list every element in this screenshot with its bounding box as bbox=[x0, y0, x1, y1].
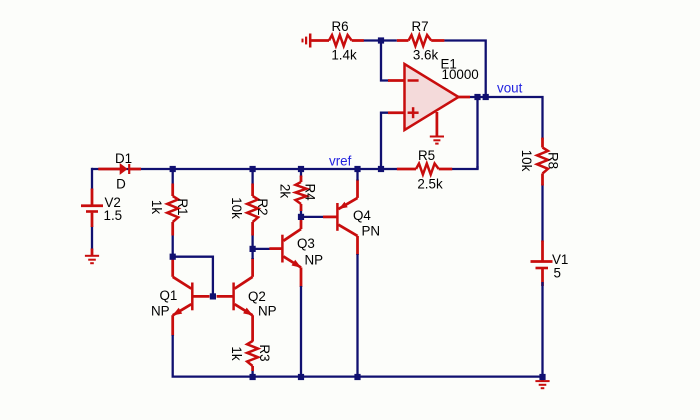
transistor Q2 bbox=[217, 258, 253, 341]
svg-text:PN: PN bbox=[362, 224, 381, 239]
label Q2 model NP bbox=[258, 304, 277, 319]
label R2 name bbox=[255, 198, 270, 215]
svg-text:R7: R7 bbox=[411, 19, 428, 34]
junction rail/ground bbox=[539, 374, 545, 380]
label R8 name bbox=[546, 152, 561, 169]
label Q1 name bbox=[160, 288, 178, 303]
svg-text:R3: R3 bbox=[257, 344, 272, 361]
resistor R2 bbox=[247, 184, 258, 236]
label R3 name bbox=[257, 344, 272, 361]
label Q3 name bbox=[297, 236, 315, 251]
wire: V1 to bottom rail bbox=[541, 282, 543, 377]
svg-text:1k: 1k bbox=[229, 346, 244, 360]
label Q4 model PN bbox=[362, 224, 381, 239]
label V1 name bbox=[552, 252, 568, 267]
wire: bottom rail bbox=[173, 335, 543, 377]
node vout label bbox=[497, 80, 523, 95]
svg-text:10000: 10000 bbox=[442, 67, 479, 82]
svg-text:R8: R8 bbox=[546, 152, 561, 169]
wire: Q3 base from junction bbox=[253, 248, 270, 250]
ground (left rail of R6) bbox=[303, 34, 311, 48]
svg-text:1.4k: 1.4k bbox=[331, 48, 357, 63]
label Q4 name bbox=[353, 208, 371, 223]
svg-text:Q2: Q2 bbox=[248, 289, 266, 304]
label R6 value bbox=[331, 48, 357, 63]
svg-text:3.6k: 3.6k bbox=[413, 48, 439, 63]
junction at output/R5 bbox=[474, 94, 480, 100]
label R8 value bbox=[519, 150, 534, 172]
resistor R5 bbox=[397, 164, 452, 175]
resistor R8 bbox=[537, 138, 548, 186]
wire: junction down to - input bbox=[381, 41, 389, 81]
junction at output/R7 feedback bbox=[483, 94, 489, 100]
battery V2 bbox=[81, 189, 103, 228]
label E1 name bbox=[441, 57, 457, 72]
label R7 name bbox=[411, 19, 428, 34]
label V1 value bbox=[554, 266, 561, 281]
wire: R1 column top bbox=[172, 169, 174, 185]
svg-text:Q1: Q1 bbox=[160, 288, 178, 303]
svg-text:2k: 2k bbox=[278, 184, 293, 198]
resistor R4 bbox=[296, 176, 307, 212]
svg-text:vref: vref bbox=[329, 153, 352, 168]
svg-text:5: 5 bbox=[554, 266, 561, 281]
svg-text:NP: NP bbox=[151, 304, 170, 319]
svg-text:1k: 1k bbox=[149, 200, 164, 214]
junction rail/R1 bbox=[170, 166, 176, 172]
ground (op-amp reference) bbox=[430, 112, 444, 144]
wire: R3 bottom bbox=[251, 370, 253, 377]
op-amp E1 bbox=[388, 64, 470, 130]
transistor Q1 bbox=[172, 257, 209, 336]
label R2 value bbox=[229, 197, 244, 219]
label R1 name bbox=[175, 198, 190, 215]
wire: R1 column bottom bbox=[172, 234, 174, 257]
resistor R3 bbox=[247, 341, 258, 371]
svg-text:NP: NP bbox=[258, 304, 277, 319]
svg-text:D: D bbox=[116, 177, 126, 192]
label Q3 model NP bbox=[305, 253, 324, 268]
svg-text:10k: 10k bbox=[519, 150, 534, 172]
svg-text:1.5: 1.5 bbox=[104, 208, 123, 223]
svg-text:R1: R1 bbox=[175, 198, 190, 215]
wire: junction to R7 bbox=[381, 39, 397, 41]
label R5 value bbox=[417, 177, 443, 192]
svg-text:10k: 10k bbox=[229, 197, 244, 219]
label Q2 name bbox=[248, 289, 266, 304]
wire: Q4 collector to rail bbox=[356, 254, 358, 377]
node vref label bbox=[329, 153, 352, 168]
ground (bottom rail) bbox=[535, 377, 549, 388]
wire: left column top bbox=[91, 168, 93, 190]
svg-text:R5: R5 bbox=[418, 148, 435, 163]
junction rail/Q4 emitter bbox=[354, 166, 360, 172]
wire: op-amp output to R8 corner bbox=[470, 97, 543, 140]
wire: R2 column top bbox=[251, 169, 253, 185]
label R4 value bbox=[278, 184, 293, 198]
junction rail/R2 bbox=[250, 166, 256, 172]
resistor R1 bbox=[167, 184, 178, 236]
transistor Q4 bbox=[323, 180, 358, 256]
label R7 value bbox=[413, 48, 439, 63]
transistor Q3 bbox=[269, 217, 301, 287]
junction rail/Q4 collector bbox=[354, 374, 360, 380]
resistor R7 bbox=[397, 35, 445, 46]
diode D1 bbox=[98, 163, 141, 175]
wire: R2 column bottom bbox=[251, 234, 253, 249]
resistor R6 bbox=[311, 35, 364, 46]
ground (below V2) bbox=[85, 249, 99, 264]
wire: Q3 emitter to rail bbox=[300, 286, 302, 377]
wire: Q4 emitter to vref rail bbox=[356, 169, 358, 181]
svg-text:R6: R6 bbox=[331, 19, 348, 34]
junction rail/Q3 emitter bbox=[298, 374, 304, 380]
label R6 name bbox=[331, 19, 348, 34]
label D1 name bbox=[115, 151, 132, 166]
wire: left column below battery bbox=[91, 226, 93, 250]
junction rail/+input/R5 bbox=[378, 166, 384, 172]
label V2 value bbox=[104, 208, 123, 223]
junction R6/R7/- input bbox=[378, 37, 384, 43]
svg-text:R2: R2 bbox=[255, 198, 270, 215]
svg-text:vout: vout bbox=[497, 80, 523, 95]
label R3 value bbox=[229, 346, 244, 360]
svg-text:D1: D1 bbox=[115, 151, 132, 166]
junction R4 bottom bbox=[298, 214, 304, 220]
svg-text:2.5k: 2.5k bbox=[417, 177, 443, 192]
label V2 name bbox=[105, 195, 121, 210]
wire: R4 column top bbox=[300, 169, 302, 177]
svg-text:Q3: Q3 bbox=[297, 236, 315, 251]
wire: Q4 base from junction bbox=[301, 216, 323, 218]
junction R1 bottom bbox=[170, 254, 176, 260]
wire: vref junction to R5 bbox=[381, 168, 397, 170]
junction rail/R3 bbox=[250, 374, 256, 380]
wire: R5 to riser corner bbox=[452, 166, 478, 169]
junction R2 bottom bbox=[250, 246, 256, 252]
wire: + input down to vref rail bbox=[381, 113, 389, 169]
wire: output node down to R5 bbox=[476, 97, 478, 169]
wire: vref rail bbox=[92, 168, 381, 170]
wire: R8 column bbox=[541, 184, 543, 242]
junction rail/R4 bbox=[298, 166, 304, 172]
wire: Q2 collector to junction bbox=[251, 249, 253, 259]
wire: R7 to feedback corner bbox=[444, 41, 486, 98]
svg-text:R4: R4 bbox=[303, 183, 318, 201]
label E1 gain value bbox=[442, 67, 479, 82]
label R5 name bbox=[418, 148, 435, 163]
label D1 model bbox=[116, 177, 126, 192]
svg-text:NP: NP bbox=[305, 253, 324, 268]
label Q1 model NP bbox=[151, 304, 170, 319]
wire: R1 bottom to Q1/Q2 bases bbox=[173, 257, 213, 297]
svg-text:Q4: Q4 bbox=[353, 208, 371, 223]
junction Q1/Q2 bases bbox=[210, 293, 216, 299]
wire: R6 right to junction bbox=[364, 39, 382, 41]
battery V1 bbox=[531, 241, 553, 287]
label R4 name bbox=[303, 183, 318, 201]
label R1 value bbox=[149, 200, 164, 214]
wire: R4 column bottom bbox=[300, 210, 302, 217]
